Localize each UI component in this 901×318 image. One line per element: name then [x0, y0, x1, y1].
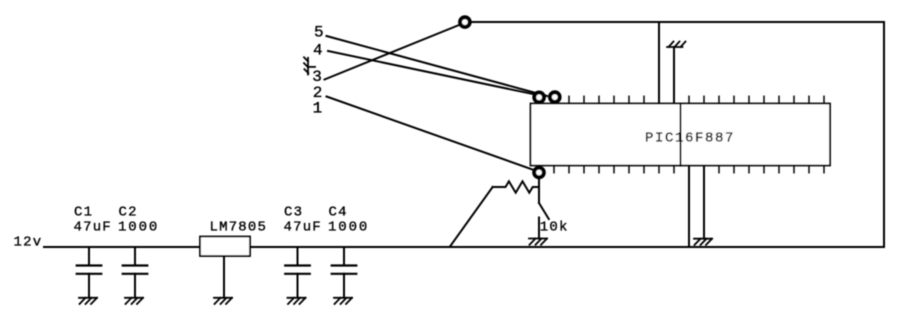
- ground switch: [529, 239, 547, 245]
- IC top pins: [539, 96, 824, 103]
- wire vcc drop to IC top pin: [658, 22, 660, 104]
- wire 5 to IC pin 2: [327, 36, 548, 96]
- switch lever: [539, 203, 549, 219]
- svg-text:47uF: 47uF: [74, 219, 112, 235]
- node pin1 top junction dot: [534, 92, 544, 102]
- ground C1: [79, 298, 97, 304]
- wire IC bottom pin to rail: [688, 166, 690, 248]
- regulator U1 LM7805 box: [200, 237, 250, 257]
- wire top horizontal (node A to right border): [465, 21, 884, 23]
- IC U2 PIC16F887 box: [531, 104, 831, 166]
- ground IC bottom: [694, 239, 712, 245]
- IC bottom pins: [539, 166, 824, 173]
- resistor R1 10k: [493, 181, 539, 192]
- wire right border vertical: [883, 22, 885, 247]
- svg-text:C2: C2: [119, 204, 138, 220]
- ground C4: [334, 298, 352, 304]
- capacitor C4: [332, 247, 357, 298]
- ground C3: [288, 298, 306, 304]
- wire 4 to IC pin 1: [328, 51, 540, 96]
- wire ground stub to IC top pin: [673, 47, 675, 104]
- wire LM7805 to ground: [223, 256, 225, 298]
- svg-text:PIC16F887: PIC16F887: [645, 130, 735, 146]
- svg-text:47uF: 47uF: [284, 219, 322, 235]
- svg-text:1000: 1000: [118, 219, 159, 235]
- wire MCLR node down: [538, 173, 540, 204]
- node A junction dot: [460, 17, 470, 27]
- svg-text:C1: C1: [74, 204, 93, 220]
- svg-text:LM7805: LM7805: [210, 219, 268, 235]
- svg-text:1000: 1000: [328, 219, 369, 235]
- capacitor C2: [123, 247, 148, 298]
- node pin2 top junction dot: [550, 92, 560, 102]
- wire 2 to MCLR node: [327, 97, 539, 172]
- svg-text:10k: 10k: [540, 219, 569, 235]
- ground rotated near 3: [304, 57, 315, 74]
- svg-text:1: 1: [313, 100, 323, 118]
- wire switch contact to ground: [538, 218, 540, 239]
- ground IC top flipped: [667, 42, 686, 48]
- node MCLR junction dot: [534, 168, 544, 178]
- svg-text:5: 5: [314, 24, 324, 42]
- capacitor C3: [285, 247, 310, 298]
- svg-text:C3: C3: [284, 204, 303, 220]
- wire IC bottom pin to ground: [703, 166, 705, 239]
- wire 3 to node A: [325, 23, 465, 80]
- ground LM7805: [214, 298, 232, 304]
- ground C2: [125, 298, 143, 304]
- capacitor C1: [77, 247, 102, 298]
- svg-text:12v: 12v: [14, 234, 43, 250]
- svg-text:C4: C4: [329, 204, 348, 220]
- svg-text:4: 4: [313, 42, 323, 60]
- wire through IC body: [680, 104, 682, 166]
- wire bottom 12v rail: [44, 246, 884, 248]
- wire resistor to rail diagonal: [450, 187, 493, 247]
